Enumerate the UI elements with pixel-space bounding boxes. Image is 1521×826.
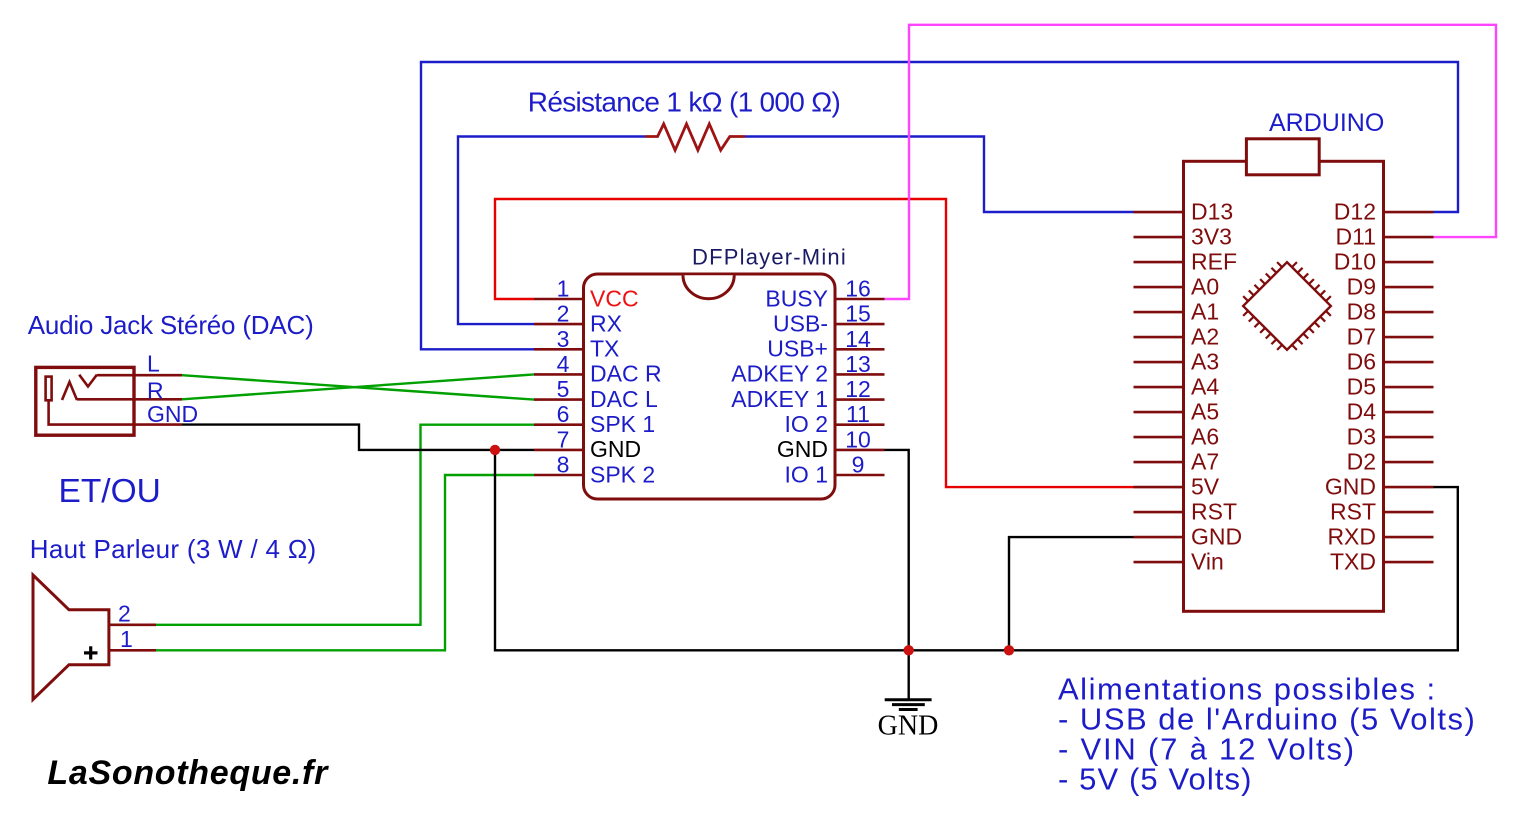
svg-text:9: 9 <box>852 452 865 478</box>
svg-text:L: L <box>147 350 160 376</box>
svg-text:RST: RST <box>1191 499 1237 525</box>
svg-text:A3: A3 <box>1191 349 1219 375</box>
svg-text:- 5V (5 Volts): - 5V (5 Volts) <box>1058 762 1253 797</box>
svg-text:DFPlayer-Mini: DFPlayer-Mini <box>692 245 847 270</box>
svg-text:GND: GND <box>878 711 939 742</box>
svg-text:D4: D4 <box>1347 399 1377 425</box>
svg-text:2: 2 <box>557 301 570 327</box>
svg-text:Résistance 1 kΩ (1 000 Ω): Résistance 1 kΩ (1 000 Ω) <box>528 86 840 117</box>
svg-text:5V: 5V <box>1191 474 1220 500</box>
svg-text:DAC R: DAC R <box>590 361 662 387</box>
svg-text:12: 12 <box>845 376 871 402</box>
svg-text:16: 16 <box>845 276 871 302</box>
svg-text:Haut Parleur (3 W / 4 Ω): Haut Parleur (3 W / 4 Ω) <box>30 534 317 564</box>
svg-text:D5: D5 <box>1347 374 1376 400</box>
svg-text:1: 1 <box>557 276 570 302</box>
svg-text:LaSonotheque.fr: LaSonotheque.fr <box>47 754 329 792</box>
svg-text:RST: RST <box>1330 499 1376 525</box>
svg-text:R: R <box>147 377 164 403</box>
svg-text:10: 10 <box>845 426 871 452</box>
svg-text:D2: D2 <box>1347 449 1376 475</box>
svg-text:A0: A0 <box>1191 274 1219 300</box>
svg-text:USB+: USB+ <box>767 336 828 362</box>
svg-text:TXD: TXD <box>1330 549 1376 575</box>
svg-text:DAC L: DAC L <box>590 386 658 412</box>
svg-text:USB-: USB- <box>773 310 828 336</box>
svg-text:13: 13 <box>845 351 871 377</box>
svg-text:REF: REF <box>1191 249 1237 275</box>
svg-text:GND: GND <box>590 436 641 462</box>
svg-text:2: 2 <box>118 601 131 627</box>
svg-text:A1: A1 <box>1191 299 1219 325</box>
svg-text:D3: D3 <box>1347 424 1376 450</box>
svg-text:8: 8 <box>557 452 570 478</box>
svg-text:IO 2: IO 2 <box>785 411 828 437</box>
svg-text:GND: GND <box>147 401 198 427</box>
svg-text:A2: A2 <box>1191 324 1219 350</box>
svg-text:A5: A5 <box>1191 399 1219 425</box>
svg-text:4: 4 <box>557 351 570 377</box>
svg-text:ET/OU: ET/OU <box>59 473 161 510</box>
svg-text:D6: D6 <box>1347 349 1376 375</box>
svg-text:A7: A7 <box>1191 449 1219 475</box>
svg-text:A6: A6 <box>1191 424 1219 450</box>
svg-text:D9: D9 <box>1347 274 1376 300</box>
svg-text:D12: D12 <box>1334 199 1376 225</box>
svg-text:D13: D13 <box>1191 199 1233 225</box>
svg-text:D11: D11 <box>1336 224 1377 250</box>
svg-text:11: 11 <box>846 401 870 427</box>
svg-text:GND: GND <box>1191 524 1242 550</box>
svg-text:D10: D10 <box>1334 249 1376 275</box>
svg-text:GND: GND <box>1325 474 1376 500</box>
svg-text:D8: D8 <box>1347 299 1376 325</box>
svg-text:BUSY: BUSY <box>765 285 828 311</box>
svg-text:A4: A4 <box>1191 374 1219 400</box>
svg-text:1: 1 <box>120 626 133 652</box>
svg-text:ADKEY 1: ADKEY 1 <box>731 386 828 412</box>
svg-text:ADKEY 2: ADKEY 2 <box>731 361 828 387</box>
svg-text:7: 7 <box>557 426 570 452</box>
svg-text:SPK 1: SPK 1 <box>590 411 655 437</box>
svg-text:14: 14 <box>845 326 871 352</box>
svg-text:3: 3 <box>557 326 570 352</box>
svg-text:Vin: Vin <box>1191 549 1224 575</box>
svg-text:RX: RX <box>590 310 622 336</box>
svg-text:3V3: 3V3 <box>1191 224 1232 250</box>
svg-text:D7: D7 <box>1347 324 1376 350</box>
svg-text:Audio Jack Stéréo (DAC): Audio Jack Stéréo (DAC) <box>28 310 314 340</box>
svg-text:ARDUINO: ARDUINO <box>1269 109 1384 137</box>
svg-text:TX: TX <box>590 336 619 362</box>
svg-text:15: 15 <box>845 301 871 327</box>
svg-text:5: 5 <box>557 376 570 402</box>
svg-text:6: 6 <box>557 401 570 427</box>
svg-text:GND: GND <box>777 436 828 462</box>
svg-text:IO 1: IO 1 <box>785 461 828 487</box>
svg-text:RXD: RXD <box>1327 524 1376 550</box>
svg-text:SPK 2: SPK 2 <box>590 461 655 487</box>
svg-text:VCC: VCC <box>590 285 639 311</box>
